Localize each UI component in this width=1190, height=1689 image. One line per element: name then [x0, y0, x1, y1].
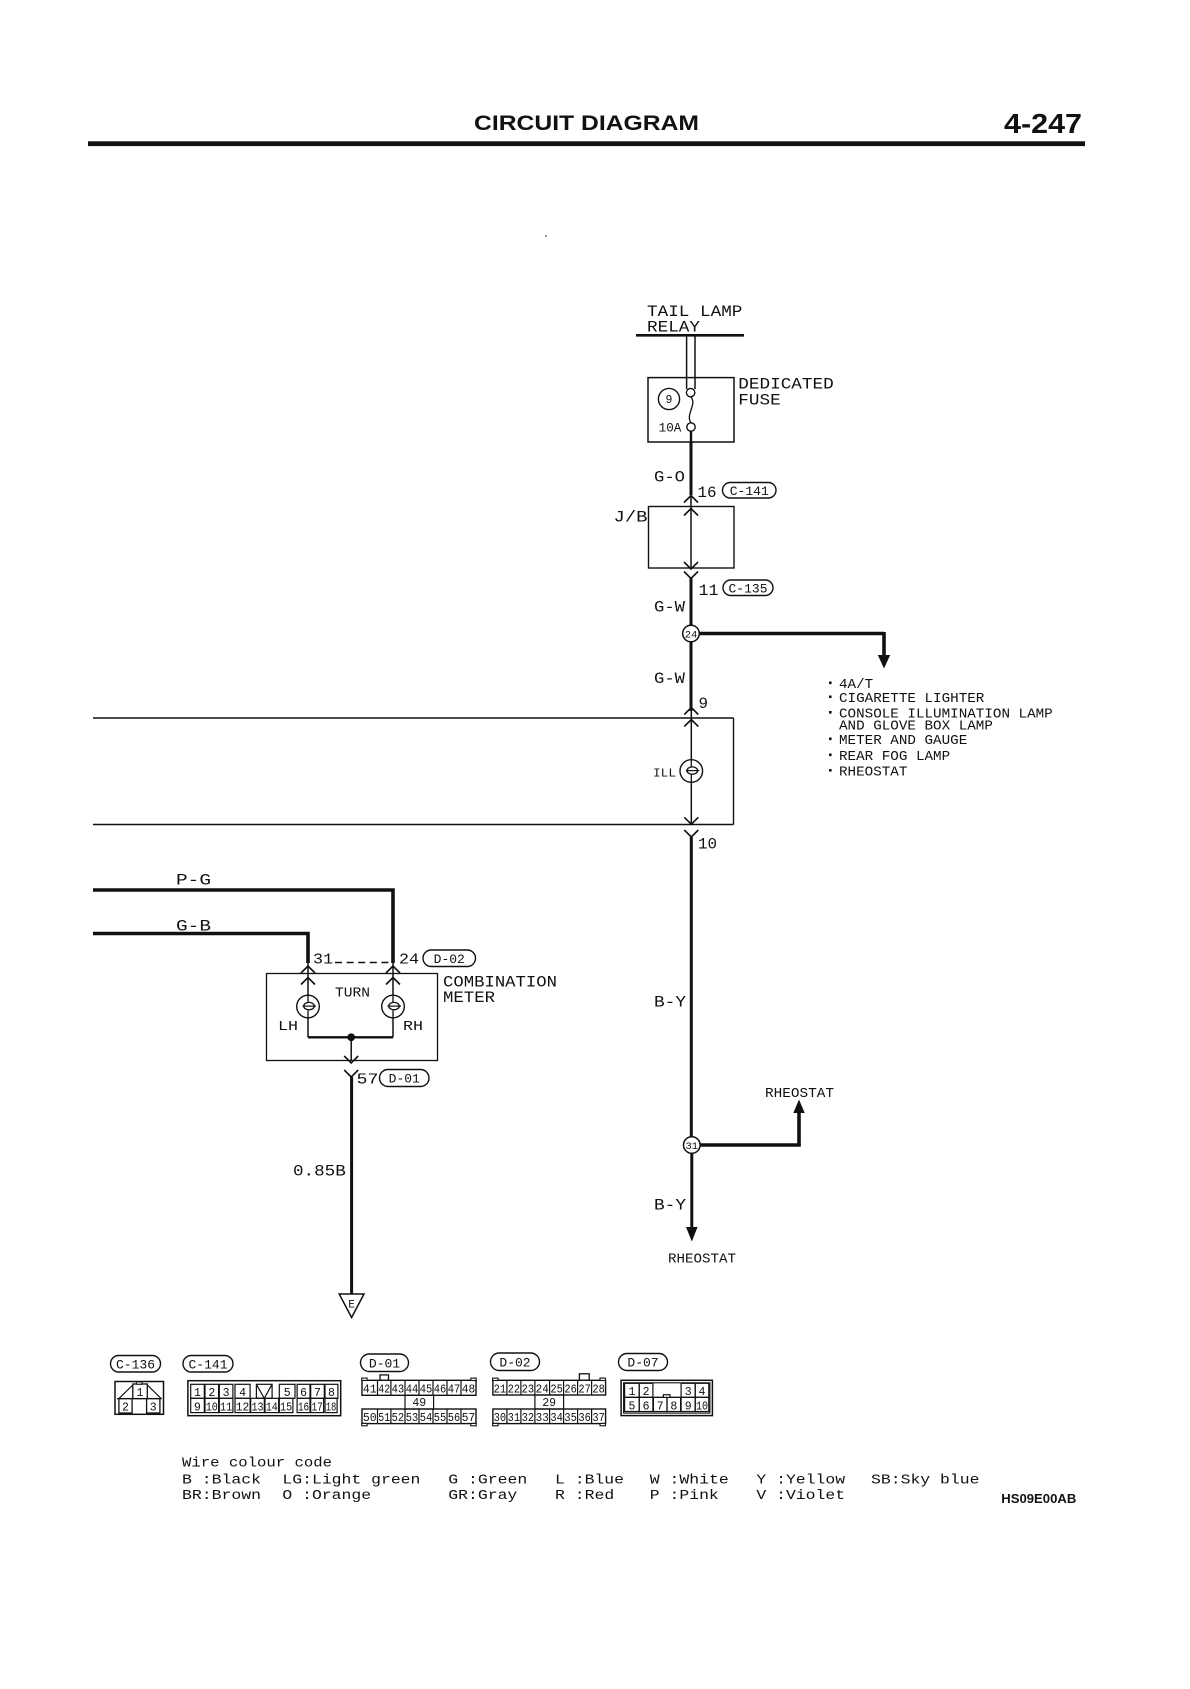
svg-text:RHEOSTAT: RHEOSTAT [839, 766, 907, 781]
svg-text:51: 51 [378, 1412, 390, 1425]
svg-text:D-02: D-02 [434, 952, 465, 967]
svg-text:RH: RH [403, 1020, 423, 1035]
svg-text:28: 28 [592, 1383, 605, 1396]
svg-text:P-G: P-G [176, 872, 211, 890]
svg-text:41: 41 [363, 1384, 377, 1397]
svg-text:13: 13 [251, 1401, 263, 1414]
svg-text:7: 7 [657, 1400, 664, 1413]
svg-text:8: 8 [670, 1400, 677, 1413]
svg-text:57: 57 [357, 1072, 379, 1089]
svg-text:G-W: G-W [654, 670, 685, 688]
svg-text:2: 2 [122, 1402, 129, 1415]
svg-text:3: 3 [150, 1402, 157, 1415]
svg-text:B :Black: B :Black [182, 1474, 261, 1489]
svg-text:34: 34 [550, 1412, 563, 1425]
svg-text:35: 35 [564, 1412, 577, 1425]
svg-text:10A: 10A [659, 422, 682, 436]
svg-text:12: 12 [236, 1401, 250, 1414]
svg-text:P :Pink: P :Pink [650, 1489, 719, 1504]
svg-text:E: E [348, 1300, 355, 1312]
svg-text:29: 29 [542, 1397, 556, 1410]
svg-text:D-07: D-07 [627, 1356, 658, 1371]
svg-text:10: 10 [696, 1400, 708, 1413]
svg-text:O :Orange: O :Orange [282, 1489, 371, 1504]
svg-text:LH: LH [278, 1020, 298, 1035]
svg-text:4-247: 4-247 [1004, 108, 1082, 139]
svg-text:22: 22 [508, 1383, 521, 1396]
svg-text:BR:Brown: BR:Brown [182, 1489, 261, 1504]
svg-text:9: 9 [194, 1401, 201, 1414]
svg-text:24: 24 [685, 630, 698, 642]
svg-text:Wire colour code: Wire colour code [182, 1457, 332, 1472]
svg-text:RHEOSTAT: RHEOSTAT [765, 1087, 834, 1102]
svg-text:C-135: C-135 [728, 581, 767, 596]
svg-text:Y :Yellow: Y :Yellow [756, 1474, 845, 1489]
svg-text:16: 16 [698, 484, 717, 502]
svg-text:44: 44 [406, 1384, 419, 1397]
svg-text:G-W: G-W [654, 599, 685, 617]
svg-text:LG:Light green: LG:Light green [282, 1474, 420, 1489]
svg-text:C-136: C-136 [116, 1357, 155, 1372]
svg-text:49: 49 [412, 1397, 426, 1410]
svg-text:43: 43 [392, 1384, 405, 1397]
svg-text:RHEOSTAT: RHEOSTAT [668, 1253, 736, 1268]
svg-text:D-01: D-01 [369, 1356, 400, 1371]
svg-text:11: 11 [699, 582, 719, 600]
svg-text:23: 23 [522, 1383, 535, 1396]
svg-text:24: 24 [399, 952, 419, 969]
svg-text:46: 46 [434, 1384, 447, 1397]
svg-text:53: 53 [406, 1412, 419, 1425]
svg-text:C-141: C-141 [188, 1357, 227, 1372]
svg-text:0.85B: 0.85B [293, 1163, 346, 1181]
svg-text:33: 33 [536, 1412, 549, 1425]
svg-text:CIRCUIT DIAGRAM: CIRCUIT DIAGRAM [474, 112, 699, 135]
svg-text:REAR FOG LAMP: REAR FOG LAMP [839, 750, 950, 765]
svg-text:14: 14 [266, 1401, 278, 1414]
svg-text:METER: METER [443, 989, 495, 1007]
svg-text:D-02: D-02 [499, 1355, 530, 1370]
svg-text:15: 15 [280, 1401, 292, 1414]
svg-text:10: 10 [206, 1401, 218, 1414]
svg-text:R :Red: R :Red [555, 1489, 614, 1504]
svg-text:9: 9 [666, 394, 673, 407]
svg-text:32: 32 [522, 1412, 535, 1425]
svg-text:56: 56 [448, 1412, 461, 1425]
svg-text:1: 1 [137, 1387, 144, 1400]
svg-text:SB:Sky blue: SB:Sky blue [871, 1474, 980, 1489]
svg-text:17: 17 [311, 1401, 322, 1414]
svg-text:6: 6 [643, 1400, 650, 1413]
svg-text:10: 10 [698, 836, 717, 854]
svg-text:J/B: J/B [614, 509, 648, 527]
svg-text:21: 21 [494, 1383, 507, 1396]
svg-text:B-Y: B-Y [654, 994, 686, 1012]
svg-text:11: 11 [220, 1401, 232, 1414]
svg-text:48: 48 [462, 1384, 476, 1397]
svg-text:16: 16 [298, 1401, 309, 1414]
svg-text:36: 36 [578, 1412, 591, 1425]
svg-text:G-O: G-O [654, 469, 685, 487]
svg-text:CIGARETTE LIGHTER: CIGARETTE LIGHTER [839, 692, 984, 707]
svg-text:HS09E00AB: HS09E00AB [1001, 1491, 1076, 1506]
svg-text:45: 45 [420, 1384, 433, 1397]
svg-text:55: 55 [434, 1412, 447, 1425]
svg-text:9: 9 [699, 695, 709, 713]
svg-text:4A/T: 4A/T [839, 678, 873, 693]
svg-text:5: 5 [628, 1400, 635, 1413]
svg-text:ILL: ILL [653, 767, 676, 781]
svg-text:G :Green: G :Green [448, 1474, 527, 1489]
svg-text:C-141: C-141 [730, 484, 769, 499]
svg-text:V :Violet: V :Violet [756, 1489, 845, 1504]
svg-text:54: 54 [420, 1412, 433, 1425]
svg-text:D-01: D-01 [389, 1072, 420, 1087]
svg-text:47: 47 [448, 1384, 461, 1397]
svg-text:31: 31 [313, 952, 333, 969]
svg-text:METER AND GAUGE: METER AND GAUGE [839, 734, 967, 749]
svg-text:31: 31 [685, 1141, 698, 1153]
svg-text:TURN: TURN [335, 987, 370, 1002]
svg-text:42: 42 [378, 1384, 390, 1397]
svg-text:26: 26 [564, 1383, 577, 1396]
svg-text:B-Y: B-Y [654, 1197, 686, 1215]
svg-text:27: 27 [578, 1383, 591, 1396]
svg-text:52: 52 [392, 1412, 405, 1425]
svg-text:RELAY: RELAY [647, 319, 700, 337]
svg-text:AND GLOVE BOX LAMP: AND GLOVE BOX LAMP [839, 720, 993, 735]
svg-text:18: 18 [326, 1401, 337, 1414]
svg-text:9: 9 [685, 1400, 692, 1413]
svg-text:FUSE: FUSE [738, 392, 780, 410]
svg-text:31: 31 [508, 1412, 521, 1425]
svg-text:GR:Gray: GR:Gray [448, 1489, 517, 1504]
svg-text:W :White: W :White [650, 1474, 729, 1489]
svg-text:L :Blue: L :Blue [555, 1474, 624, 1489]
